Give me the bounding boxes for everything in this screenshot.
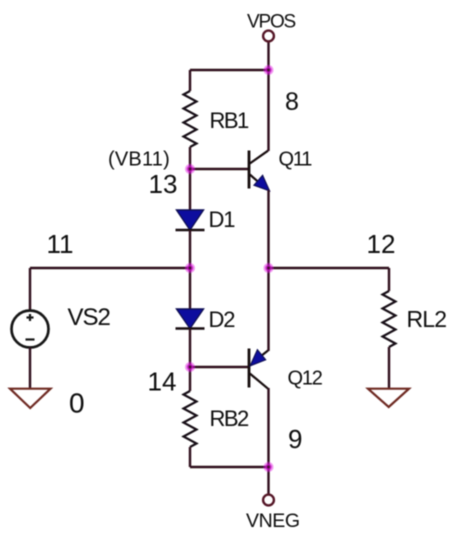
wire: Q11 collector vertical: [267, 70, 269, 151]
wire: VPOS stem: [267, 42, 269, 71]
svg-text:11: 11: [47, 229, 74, 259]
wire: bottom rail: [190, 466, 269, 468]
terminal VPOS pin circle: [263, 31, 274, 42]
resistor RB2: [184, 391, 197, 447]
ground (right): [368, 389, 409, 407]
diode D2: [177, 309, 204, 329]
junction node 12: [264, 263, 274, 273]
svg-text:Q12: Q12: [288, 368, 323, 390]
junction node 14: [185, 362, 195, 372]
junction at VPOS rail: [264, 65, 274, 75]
wire: D2 top lead: [189, 268, 191, 309]
wire: RL2 top lead: [388, 268, 390, 291]
wire: Q12 base wire: [190, 366, 248, 368]
wire: VS2 bottom stem: [29, 348, 31, 389]
wire: D1 bottom lead: [189, 230, 191, 268]
wire: Q12 collector vertical: [267, 388, 269, 467]
junction node 13: [185, 164, 195, 174]
svg-text:D1: D1: [209, 207, 236, 232]
wire: RL2 bottom lead: [388, 347, 390, 388]
source VS2: [12, 311, 49, 348]
Q12 emitter arrow: [250, 350, 265, 366]
svg-text:13: 13: [149, 169, 178, 199]
wire: Q11 emitter vertical: [267, 190, 269, 268]
svg-text:RB1: RB1: [210, 108, 250, 133]
terminal VNEG pin circle: [263, 495, 274, 506]
svg-text:RB2: RB2: [210, 406, 250, 431]
junction node 11: [185, 263, 195, 273]
wire: RB1 top lead: [189, 70, 191, 91]
wire: Q11 base wire: [190, 168, 248, 170]
ground 0: [10, 389, 51, 408]
junction at VNEG rail: [264, 462, 274, 472]
wire: left rail to VS2: [30, 267, 190, 269]
wire: RB1 bottom lead: [189, 147, 191, 169]
svg-text:VS2: VS2: [68, 304, 111, 331]
svg-text:VNEG: VNEG: [246, 510, 300, 532]
svg-text:14: 14: [148, 367, 177, 397]
svg-text:D2: D2: [209, 307, 236, 332]
wire: VNEG stem: [267, 467, 269, 494]
wire: RB2 top lead: [189, 367, 191, 391]
wire: output rail to RL2: [269, 267, 390, 269]
resistor RL2: [383, 291, 396, 347]
Q11 emitter arrow: [254, 175, 270, 190]
wire: top rail: [190, 69, 269, 71]
wire: RB2 bottom lead: [189, 447, 191, 467]
wire: Q12 emitter vertical: [267, 268, 269, 351]
svg-text:0: 0: [69, 388, 85, 419]
svg-text:Q11: Q11: [279, 149, 313, 171]
diode D1: [177, 210, 204, 230]
svg-text:RL2: RL2: [407, 306, 447, 332]
svg-text:VPOS: VPOS: [247, 12, 296, 33]
transistor Q12: [249, 349, 268, 389]
transistor Q11: [249, 151, 268, 190]
wire: VS2 top stem: [29, 268, 31, 311]
svg-text:9: 9: [288, 424, 302, 454]
resistor RB1: [184, 91, 197, 147]
wire: D2 bottom lead: [189, 329, 191, 368]
svg-text:8: 8: [285, 88, 299, 116]
svg-text:12: 12: [367, 229, 396, 259]
svg-text:(VB11): (VB11): [108, 149, 170, 171]
wire: D1 top lead: [189, 169, 191, 210]
